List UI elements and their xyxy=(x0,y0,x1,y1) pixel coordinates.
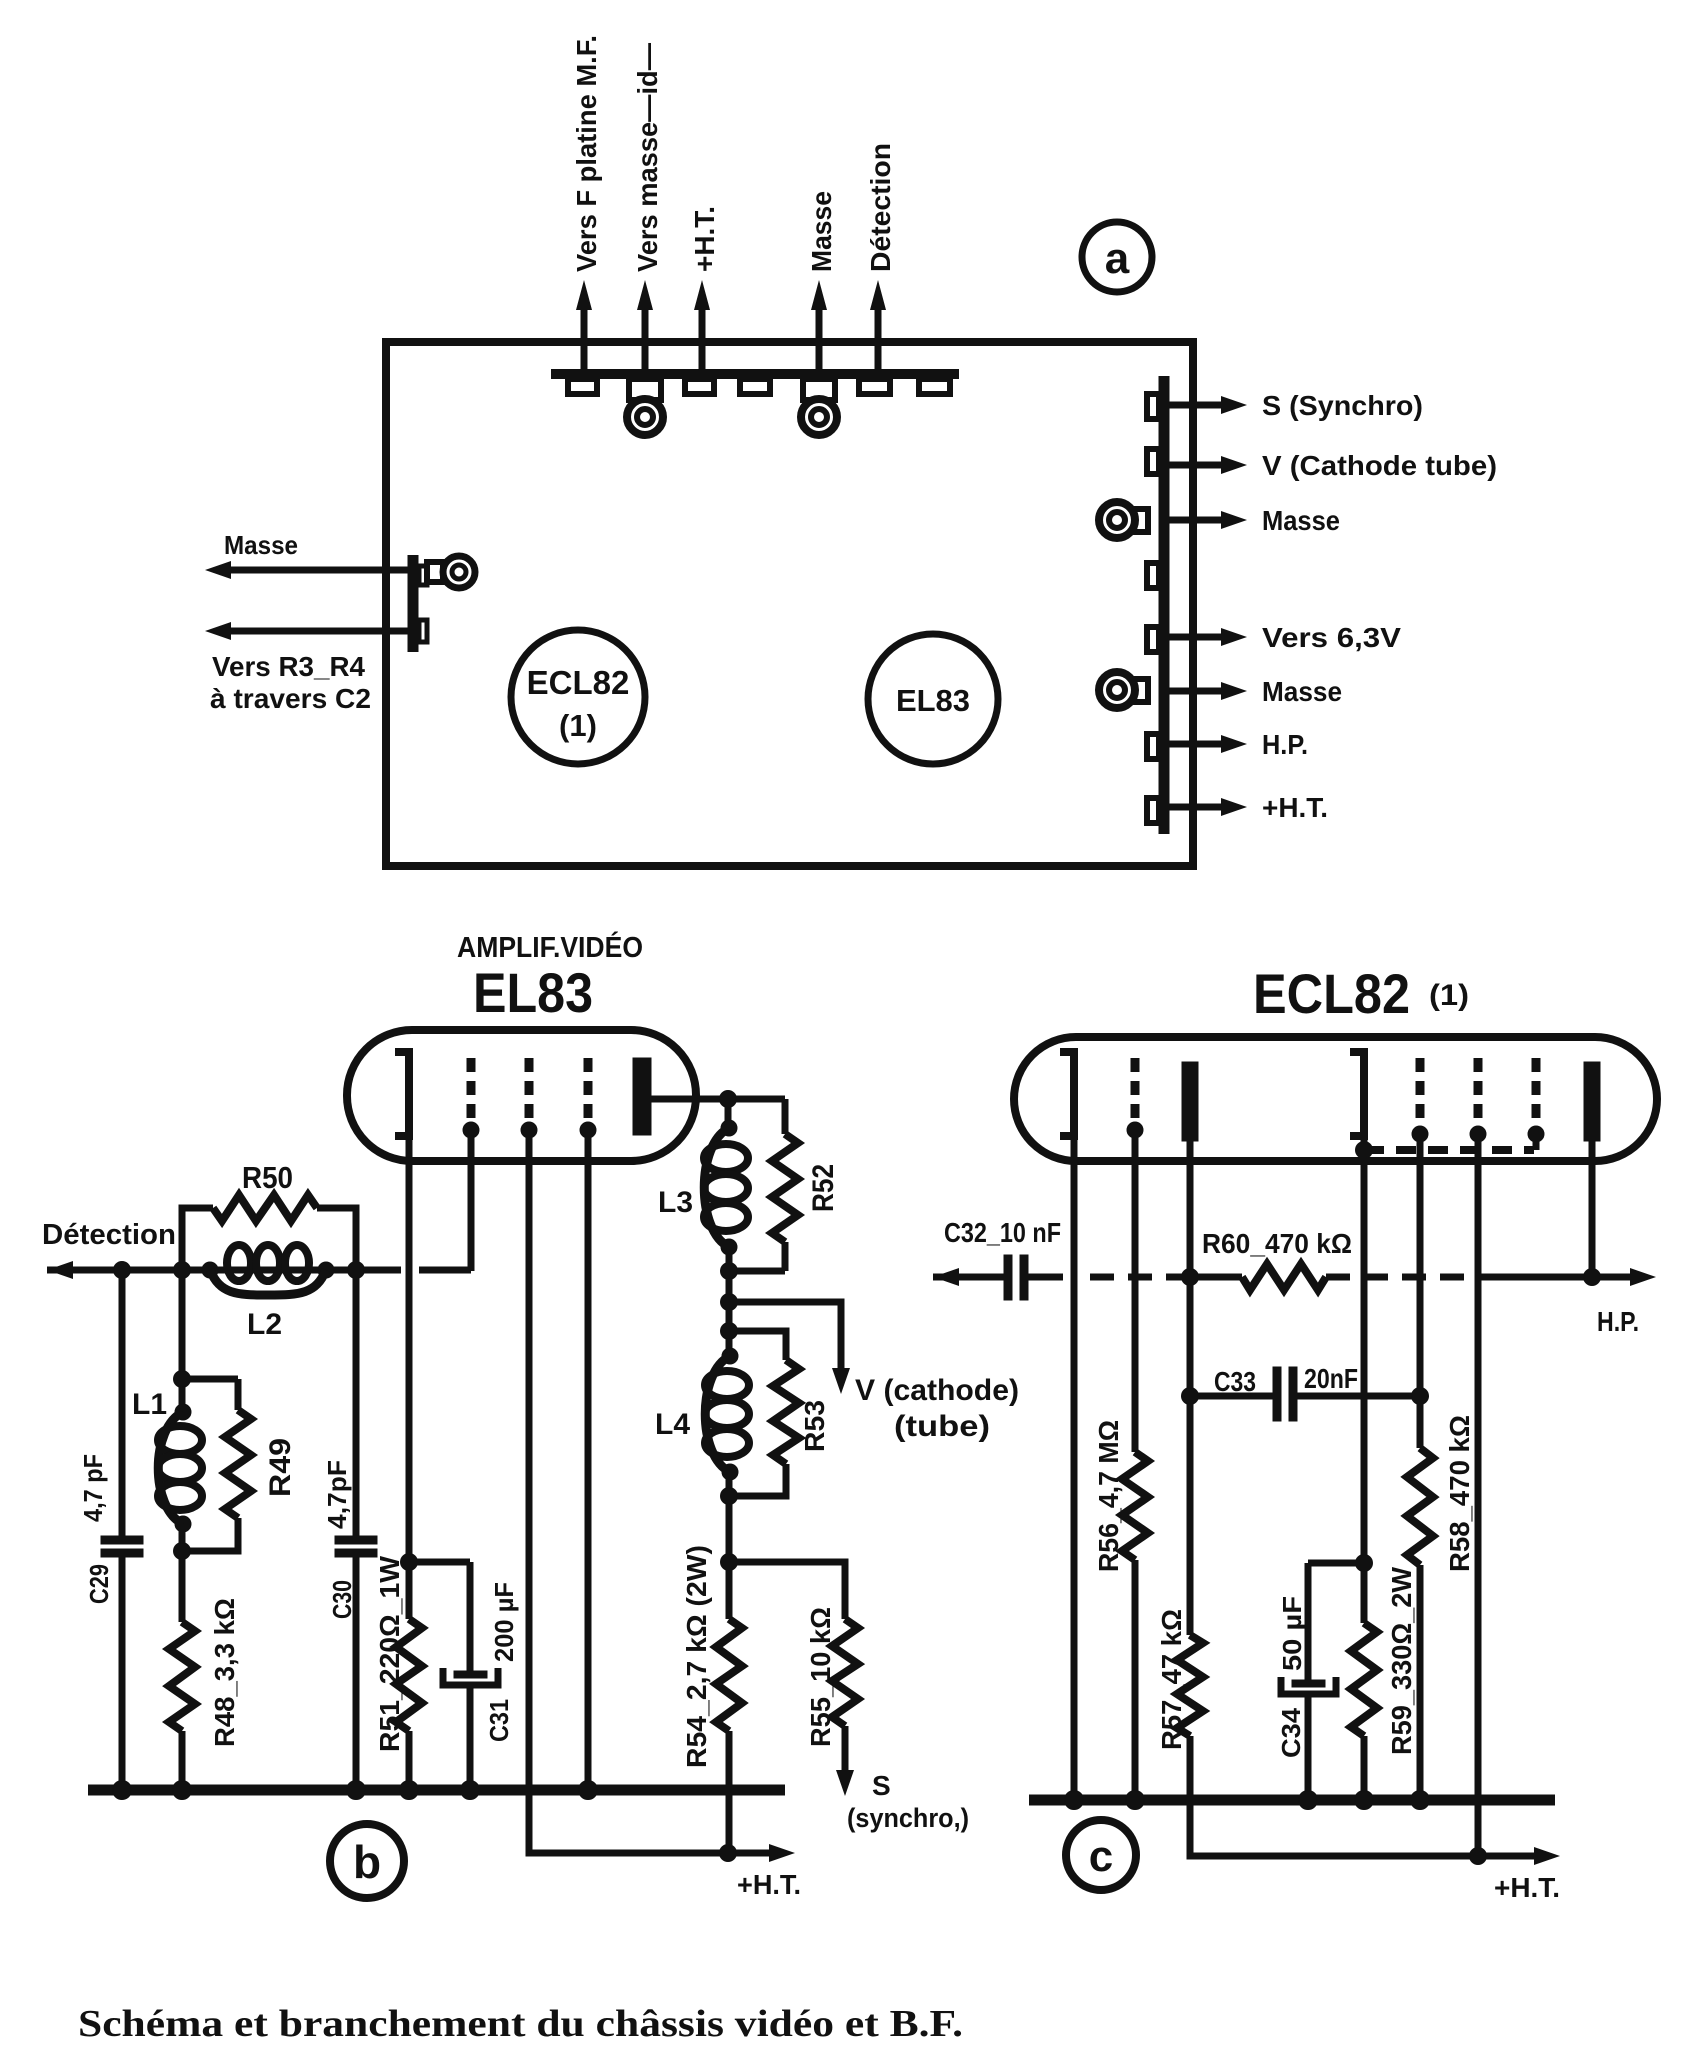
svg-text:20nF: 20nF xyxy=(1304,1363,1358,1394)
right strip ring lug 1 xyxy=(1130,509,1148,532)
svg-text:L3: L3 xyxy=(658,1186,693,1219)
wire: branch to V (cathode tube) xyxy=(729,1302,841,1368)
svg-text:(tube): (tube) xyxy=(894,1410,990,1443)
svg-text:L1: L1 xyxy=(132,1388,167,1421)
resistor R50 xyxy=(182,1208,213,1270)
svg-text:R53: R53 xyxy=(799,1400,830,1452)
wire: top lead +H.T. xyxy=(699,310,706,374)
svg-text:(synchro,): (synchro,) xyxy=(847,1803,969,1833)
svg-text:R51_220Ω_1W: R51_220Ω_1W xyxy=(374,1555,405,1752)
resistor R58 470k xyxy=(1407,1448,1433,1565)
EL83 grid g2 pin xyxy=(525,1058,534,1122)
inductor L4 xyxy=(722,1348,738,1364)
left ring lug xyxy=(427,562,443,582)
capacitor C30 4,7pF xyxy=(353,1270,360,1536)
wire: Masse lead (left) xyxy=(231,567,413,574)
node anode junction xyxy=(725,1099,732,1128)
resistor R56 4,7M xyxy=(1122,1452,1148,1560)
svg-text:C33: C33 xyxy=(1214,1366,1256,1397)
wire: top lead Vers masse—id— xyxy=(642,310,649,374)
svg-text:+H.T.: +H.T. xyxy=(689,206,720,272)
ECL82 pentode g1 pin xyxy=(1416,1058,1425,1126)
svg-text:b: b xyxy=(353,1836,381,1888)
view label b xyxy=(330,1824,404,1898)
svg-text:a: a xyxy=(1105,234,1130,283)
EL83 grid g1 pin xyxy=(467,1058,476,1122)
svg-text:H.P.: H.P. xyxy=(1597,1306,1639,1337)
svg-text:H.P.: H.P. xyxy=(1262,729,1308,760)
wire: pentode anode down to H.P. line xyxy=(1589,1141,1596,1277)
svg-text:+H.T.: +H.T. xyxy=(1262,792,1328,823)
junction on bus x=409 xyxy=(400,1781,419,1800)
junction on bus x=470 xyxy=(461,1781,480,1800)
svg-text:4,7 pF: 4,7 pF xyxy=(78,1454,108,1522)
resistor R48 3,3k xyxy=(169,1622,195,1731)
junction on bus x=182 xyxy=(173,1781,192,1800)
svg-text:R59_330Ω_2W: R59_330Ω_2W xyxy=(1386,1566,1417,1755)
wire: top lead Détection xyxy=(875,310,882,374)
svg-text:S: S xyxy=(872,1770,891,1801)
wire: EL83 g3 lead down to ground bus xyxy=(585,1130,592,1790)
svg-text:ECL82: ECL82 xyxy=(1253,962,1410,1025)
resistor R60 470k xyxy=(1190,1274,1242,1281)
svg-text:+H.T.: +H.T. xyxy=(737,1869,801,1900)
top strip ring lug 2 xyxy=(803,379,835,400)
svg-text:EL83: EL83 xyxy=(473,961,593,1024)
svg-text:AMPLIF.VIDÉO: AMPLIF.VIDÉO xyxy=(457,930,643,964)
wire: to L4 xyxy=(726,1302,733,1356)
view label a xyxy=(1082,222,1152,292)
svg-text:R56_4,7 MΩ: R56_4,7 MΩ xyxy=(1093,1420,1124,1572)
ECL82 triode anode plate xyxy=(1182,1062,1198,1141)
svg-text:EL83: EL83 xyxy=(896,683,970,718)
capacitor C33 20nF xyxy=(1190,1393,1273,1400)
wire: cathode column down xyxy=(726,1472,733,1562)
svg-text:c: c xyxy=(1089,1832,1113,1881)
resistor R51 220R 1W (cathode) xyxy=(401,1554,418,1571)
resistor R49 xyxy=(235,1379,242,1410)
svg-text:R57_47 kΩ: R57_47 kΩ xyxy=(1156,1609,1187,1750)
junction on bus x=1364 xyxy=(1355,1791,1374,1810)
ECL82 triode cathode pin xyxy=(1060,1052,1074,1136)
view label c xyxy=(1066,1820,1136,1890)
svg-text:+H.T.: +H.T. xyxy=(1494,1872,1560,1903)
wire: triode anode lead xyxy=(1187,1141,1194,1635)
tube socket ECL82 (1) xyxy=(511,630,645,764)
svg-text:R60_470 kΩ: R60_470 kΩ xyxy=(1202,1228,1352,1259)
svg-text:R49: R49 xyxy=(264,1438,297,1497)
junction on bus x=1308 xyxy=(1299,1791,1318,1810)
svg-text:V (Cathode tube): V (Cathode tube) xyxy=(1262,450,1497,481)
wire: EL83 cathode lead down to R51 xyxy=(406,1136,413,1562)
node R54/R55 top xyxy=(721,1554,738,1571)
chassis outline (video/BF chassis top view) xyxy=(386,342,1193,866)
svg-text:4,7pF: 4,7pF xyxy=(322,1460,352,1529)
ECL82 pentode cathode pin xyxy=(1350,1052,1364,1136)
svg-text:R58_470 kΩ: R58_470 kΩ xyxy=(1444,1415,1475,1572)
svg-text:(1): (1) xyxy=(559,708,597,743)
svg-text:(1): (1) xyxy=(1429,979,1469,1012)
svg-text:L2: L2 xyxy=(247,1308,282,1341)
junction on bus x=1135 xyxy=(1126,1791,1145,1810)
wire: pentode g2 to +H.T. xyxy=(1475,1134,1482,1856)
wire: right lead S (Synchro) xyxy=(1166,402,1223,409)
EL83 anode plate xyxy=(633,1058,651,1135)
ECL82 pentode g2 pin xyxy=(1474,1058,1483,1126)
resistor R53 xyxy=(729,1331,786,1360)
svg-text:R52: R52 xyxy=(807,1164,840,1212)
wire: right lead Vers 6,3V xyxy=(1166,634,1223,641)
svg-text:C31: C31 xyxy=(484,1699,514,1742)
left connector bracket xyxy=(408,555,419,652)
svg-text:C34: C34 xyxy=(1276,1707,1306,1758)
wire xyxy=(179,1524,186,1622)
wire: L3/R52 bottom join xyxy=(729,1268,785,1275)
svg-text:S (Synchro): S (Synchro) xyxy=(1262,390,1423,421)
svg-text:Vers F platine M.F.: Vers F platine M.F. xyxy=(571,35,602,272)
junction on bus x=356 xyxy=(347,1781,366,1800)
resistor R52 xyxy=(782,1099,789,1134)
EL83 cathode (pin k) xyxy=(395,1052,409,1136)
svg-text:C30: C30 xyxy=(327,1580,357,1619)
wire: dashed link line xyxy=(1090,1274,1184,1281)
svg-text:C29: C29 xyxy=(84,1564,114,1604)
tube socket EL83 xyxy=(868,634,998,764)
svg-text:ECL82: ECL82 xyxy=(527,664,630,701)
junction on bus x=122 xyxy=(113,1781,132,1800)
wire: right lead H.P. xyxy=(1166,741,1223,748)
svg-text:Masse: Masse xyxy=(224,530,298,560)
svg-text:V (cathode): V (cathode) xyxy=(855,1374,1019,1407)
wire: right lead Masse xyxy=(1166,688,1223,695)
svg-text:Détection: Détection xyxy=(865,143,896,272)
wire: top lead Masse xyxy=(816,310,823,374)
wire: pentode cathode lead xyxy=(1361,1136,1368,1623)
resistor R55 10k xyxy=(729,1562,845,1619)
wire: triode grid lead xyxy=(1132,1130,1139,1452)
wire: right lead Masse xyxy=(1166,517,1223,524)
inductor L1 / resistor R49 parallel xyxy=(179,1270,186,1412)
svg-text:R50: R50 xyxy=(242,1160,293,1195)
wire: g3 tied to cathode xyxy=(1533,1134,1540,1150)
resistor R54 2,7k 2W xyxy=(716,1619,742,1731)
svg-text:Masse: Masse xyxy=(806,191,837,272)
EL83 grid g3 pin xyxy=(584,1058,593,1122)
svg-text:R55_10 kΩ: R55_10 kΩ xyxy=(805,1607,836,1747)
right strip ring lug 2 xyxy=(1130,679,1148,702)
capacitor C31 200uF xyxy=(409,1559,470,1566)
tube ECL82 envelope xyxy=(1014,1037,1657,1161)
wire: EL83 g1 lead down to detection line xyxy=(468,1130,475,1271)
junction on bus x=1420 xyxy=(1411,1791,1430,1810)
svg-text:R54_2,7 kΩ (2W): R54_2,7 kΩ (2W) xyxy=(681,1545,712,1768)
wire: Vers R3_R4 lead (left) xyxy=(231,628,419,635)
top strip ring lug 1 xyxy=(629,379,661,400)
svg-text:200 µF: 200 µF xyxy=(489,1582,519,1662)
wire: top lead Vers F platine M.F. xyxy=(581,310,588,374)
resistor R57 47k xyxy=(1177,1635,1203,1736)
wire: right lead V (Cathode tube) xyxy=(1166,462,1223,469)
wire: EL83 anode to L3/R52 xyxy=(651,1096,785,1103)
tube EL83 envelope xyxy=(347,1030,696,1161)
capacitor C29 4,7pF xyxy=(119,1270,126,1536)
svg-text:Détection: Détection xyxy=(42,1219,176,1251)
svg-text:Masse: Masse xyxy=(1262,676,1342,707)
svg-text:Masse: Masse xyxy=(1262,505,1340,536)
svg-text:L4: L4 xyxy=(655,1408,690,1441)
wire: detection line xyxy=(47,1267,401,1274)
junction on bus x=588 xyxy=(579,1781,598,1800)
wire: right lead +H.T. xyxy=(1166,804,1223,811)
right connector strip xyxy=(1159,376,1170,834)
node V branch xyxy=(721,1294,738,1311)
resistor R59 330R 2W xyxy=(1351,1623,1377,1736)
svg-text:Vers R3_R4: Vers R3_R4 xyxy=(212,651,365,682)
svg-text:R48_3,3 kΩ: R48_3,3 kΩ xyxy=(209,1598,240,1747)
ECL82 pentode g3 pin xyxy=(1532,1058,1541,1126)
ECL82 pentode anode plate xyxy=(1584,1062,1600,1141)
svg-text:50 µF: 50 µF xyxy=(1277,1596,1307,1671)
wire: triode cathode to ground xyxy=(1071,1136,1078,1800)
wire: dashed link to pentode anode xyxy=(1326,1274,1490,1281)
ground bus (section c) xyxy=(1029,1795,1555,1806)
svg-text:Vers 6,3V: Vers 6,3V xyxy=(1262,622,1401,653)
capacitor C34 50uF xyxy=(1308,1560,1364,1567)
inductor L3 xyxy=(721,1120,737,1136)
ground bus (section b) xyxy=(88,1785,785,1796)
top connector strip xyxy=(551,369,959,379)
wire: EL83 g2 lead down to +H.T. xyxy=(529,1130,771,1853)
svg-text:Vers masse—id—: Vers masse—id— xyxy=(632,43,663,272)
svg-text:C32_10 nF: C32_10 nF xyxy=(944,1217,1061,1248)
ECL82 triode grid pin xyxy=(1131,1058,1140,1122)
inductor L2 xyxy=(202,1262,218,1278)
junction on bus x=1074 xyxy=(1065,1791,1084,1810)
svg-text:Schéma et branchement du c: Schéma et branchement du châssis vidéo e… xyxy=(78,2003,963,2045)
wire: pentode g1 lead xyxy=(1417,1134,1424,1448)
svg-text:à travers C2: à travers C2 xyxy=(210,683,371,714)
